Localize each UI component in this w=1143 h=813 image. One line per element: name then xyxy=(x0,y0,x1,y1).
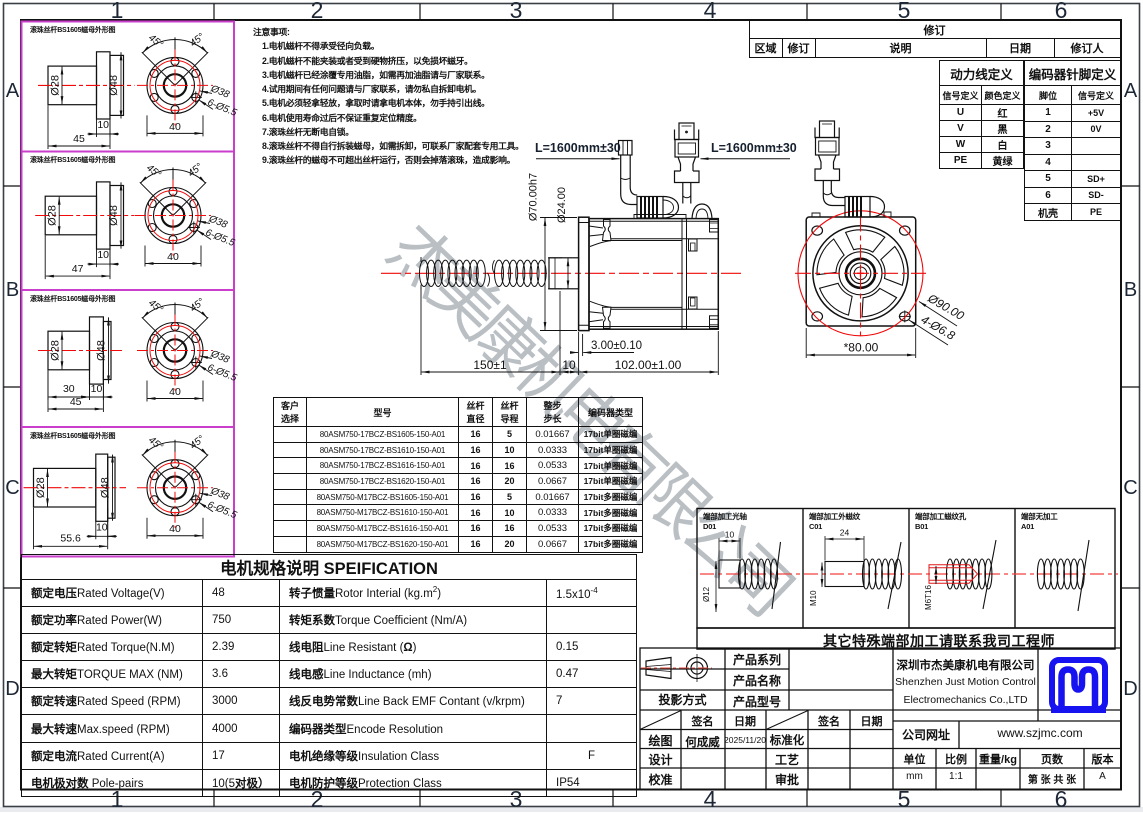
svg-text:45: 45 xyxy=(70,396,82,408)
JMC logo xyxy=(1051,660,1106,711)
svg-text:150±1: 150±1 xyxy=(473,358,507,372)
motor specification table xyxy=(21,554,637,797)
svg-text:Ø70.00h7: Ø70.00h7 xyxy=(528,173,540,221)
svg-text:Ø48: Ø48 xyxy=(100,477,112,498)
svg-text:Ø48: Ø48 xyxy=(96,340,108,361)
svg-text:3.00±0.10: 3.00±0.10 xyxy=(591,340,642,352)
ball screw nut panel borders (magenta) xyxy=(22,22,235,557)
svg-text:Ø12: Ø12 xyxy=(702,586,711,602)
svg-text:Ø48: Ø48 xyxy=(108,75,120,96)
right cable assembly (encoder plug) on side view xyxy=(675,123,713,219)
svg-text:Ø48: Ø48 xyxy=(108,205,120,226)
svg-text:*80.00: *80.00 xyxy=(844,341,879,355)
svg-text:Ø28: Ø28 xyxy=(50,75,62,96)
motor front view xyxy=(795,121,967,358)
projection symbol xyxy=(646,654,708,682)
end panel D01 (plain shaft) xyxy=(700,530,1118,613)
motor side view body xyxy=(579,217,719,330)
svg-text:10: 10 xyxy=(91,383,103,395)
svg-text:40: 40 xyxy=(169,386,181,398)
revision table xyxy=(749,20,1121,58)
front view cable assembly xyxy=(812,121,891,217)
svg-text:10: 10 xyxy=(562,358,576,372)
svg-text:10: 10 xyxy=(97,249,109,261)
main red centerline xyxy=(381,272,742,274)
svg-text:40: 40 xyxy=(169,121,181,133)
svg-text:47: 47 xyxy=(72,263,84,275)
svg-text:Ø28: Ø28 xyxy=(35,477,47,498)
left cable assembly (power) on side view xyxy=(619,141,687,219)
end panel C01 (external thread) xyxy=(809,528,902,610)
svg-text:10: 10 xyxy=(96,521,108,533)
svg-text:45: 45 xyxy=(73,133,85,145)
svg-text:M10: M10 xyxy=(809,590,818,606)
svg-text:L=1600mm±30: L=1600mm±30 xyxy=(711,141,797,155)
svg-text:55.6: 55.6 xyxy=(60,532,81,544)
svg-text:M6T16: M6T16 xyxy=(924,585,933,610)
svg-text:Ø24.00: Ø24.00 xyxy=(556,187,568,223)
ball screw coils (side view) xyxy=(420,260,547,286)
nut panel 2 drawing xyxy=(35,162,236,280)
svg-text:102.00±1.00: 102.00±1.00 xyxy=(615,358,682,372)
end panel B01 (threaded hole) xyxy=(924,540,996,610)
model selection table xyxy=(273,397,643,553)
side view dimension texts and lines xyxy=(421,218,718,376)
svg-text:L=1600mm±30: L=1600mm±30 xyxy=(535,141,621,155)
L=1600 labels xyxy=(535,141,797,155)
svg-text:40: 40 xyxy=(167,251,179,263)
svg-text:40: 40 xyxy=(169,523,181,535)
svg-text:10: 10 xyxy=(97,119,109,131)
svg-text:Ø28: Ø28 xyxy=(50,340,62,361)
nut panel 1 drawing xyxy=(38,31,239,149)
end machining panels box xyxy=(697,509,1115,650)
svg-text:Ø28: Ø28 xyxy=(47,205,59,226)
end panel A01 (no machining) xyxy=(1037,540,1089,611)
screw shaft end (diam 24) xyxy=(549,258,579,289)
nut panel 3 drawing xyxy=(38,297,239,412)
encoder pin definition table xyxy=(1024,60,1121,221)
power line definition table xyxy=(939,60,1024,169)
svg-text:30: 30 xyxy=(63,383,75,395)
nut panel 4 drawing xyxy=(24,434,239,550)
